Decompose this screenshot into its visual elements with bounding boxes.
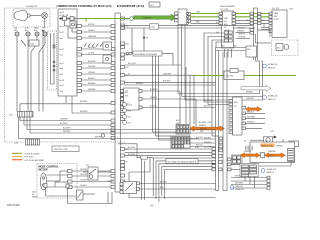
long option label box <box>166 159 198 164</box>
bottom-right row pins <box>267 176 270 189</box>
svg-text:WHT/BLU: WHT/BLU <box>80 111 88 113</box>
dashed harness boundary left <box>5 8 126 142</box>
svg-text:B7: B7 <box>126 162 128 164</box>
long rows to right bus <box>19 117 216 139</box>
heater dashed box <box>37 164 77 199</box>
svg-text:GRN/RED: GRN/RED <box>88 89 97 91</box>
svg-text:BLU/RED: BLU/RED <box>128 154 136 156</box>
svg-text:No.11: No.11 <box>60 85 64 87</box>
wire to coil <box>60 18 80 20</box>
svg-text:C6: C6 <box>224 27 226 29</box>
fuse box mini relay <box>70 21 76 28</box>
svg-text:BLK/WHT: BLK/WHT <box>163 81 171 83</box>
ECM bus left pin boxes <box>111 25 115 140</box>
fuse box header <box>57 5 112 8</box>
svg-text:YEL/RED: YEL/RED <box>80 169 88 171</box>
pin symbol P2 <box>66 184 69 204</box>
svg-text:GRN/BLK: GRN/BLK <box>244 151 252 153</box>
blue note 1 <box>263 63 279 69</box>
fan row labels <box>128 147 200 162</box>
connector box B <box>178 9 187 25</box>
svg-text:BLU/BLK: BLU/BLK <box>160 182 168 184</box>
ECM lower-left pins <box>111 170 115 189</box>
green wire VSS <box>194 75 296 77</box>
option label box <box>133 51 162 56</box>
svg-text:GRN/WHT: GRN/WHT <box>246 98 254 100</box>
orange arrow mirror right <box>265 153 286 158</box>
svg-text:BLU/WHT: BLU/WHT <box>63 128 71 130</box>
grid A labels <box>176 119 181 125</box>
svg-text:No.4: No.4 <box>60 55 64 57</box>
dimmer box <box>246 46 257 57</box>
svg-text:B22: B22 <box>126 44 129 46</box>
SCS dashed box <box>272 40 299 56</box>
lower feed verticals <box>142 159 145 201</box>
solenoid circle 4 <box>123 121 132 125</box>
gauge assembly box <box>222 11 234 48</box>
rows to note2 <box>178 92 263 101</box>
heater rows to ECM <box>72 169 111 187</box>
row labels mid <box>128 63 172 85</box>
svg-text:BLU/GRN: BLU/GRN <box>204 147 212 149</box>
noise condenser symbol <box>42 13 48 27</box>
service bus pins <box>250 12 261 34</box>
svg-text:NOT USED ON LX AND DX MODELS: NOT USED ON LX AND DX MODELS <box>168 160 197 163</box>
svg-text:PAGE 3-8: PAGE 3-8 <box>267 171 275 174</box>
svg-text:WHT/BLU: WHT/BLU <box>63 131 71 133</box>
solenoid circle 2 <box>123 109 132 113</box>
shift dashed box <box>48 31 57 90</box>
connector plug 1 <box>15 32 19 36</box>
svg-text:DLC (C4): DLC (C4) <box>272 8 280 10</box>
splice node S1 <box>130 17 134 21</box>
svg-text:A17: A17 <box>126 66 129 69</box>
svg-text:HOT AT ALL TIMES: HOT AT ALL TIMES <box>25 153 41 156</box>
AC relay pins <box>121 90 143 109</box>
distributor dashed box <box>13 9 50 27</box>
svg-text:REMOTE CTRL: REMOTE CTRL <box>261 145 273 147</box>
svg-text:JUNCTION CONN: JUNCTION CONN <box>54 149 69 151</box>
ECM/PCM main bus <box>115 13 121 192</box>
svg-text:No.8: No.8 <box>60 68 64 70</box>
solenoid circle 1 <box>123 103 133 107</box>
svg-text:BLK/YEL: BLK/YEL <box>150 106 157 108</box>
small relay K1 <box>103 42 112 50</box>
diode symbol <box>271 131 278 139</box>
svg-text:RED/BLK: RED/BLK <box>136 83 144 85</box>
svg-text:SIGNAL (20): SIGNAL (20) <box>268 63 278 66</box>
mirror arrow labels <box>244 151 277 153</box>
data link connector DLC <box>272 9 293 38</box>
mirror assembly outer box <box>250 142 295 163</box>
green pair wires to DLC <box>191 14 270 17</box>
multiplex right rows <box>246 112 266 129</box>
svg-text:15: 15 <box>246 20 248 22</box>
footer DSG <box>7 203 20 207</box>
left drops to grids <box>153 56 177 140</box>
fuse F1 <box>61 17 67 21</box>
svg-text:No.6: No.6 <box>60 91 64 93</box>
legend line hot-run <box>12 159 44 162</box>
top small box <box>149 2 160 7</box>
mirror pin mid <box>261 153 265 158</box>
wire color labels rows <box>88 24 97 91</box>
svg-text:BLU/RED: BLU/RED <box>150 89 158 91</box>
svg-text:No.23: No.23 <box>60 12 65 14</box>
power transistor <box>77 190 96 200</box>
svg-text:BLK/YEL: BLK/YEL <box>204 106 211 108</box>
svg-text:LT GRN: LT GRN <box>88 53 95 55</box>
SCS connector symbol <box>276 44 289 51</box>
blue note 2 <box>263 95 279 101</box>
svg-text:ACT: ACT <box>270 155 273 158</box>
svg-text:CONN: CONN <box>274 19 280 21</box>
bus pair below mpx <box>223 52 227 191</box>
svg-text:ILL: ILL <box>216 22 218 24</box>
mirror connector grid <box>240 164 259 177</box>
svg-text:GRN/ORN: GRN/ORN <box>163 73 172 75</box>
svg-text:C583: C583 <box>30 44 34 46</box>
svg-text:BRN/YEL: BRN/YEL <box>239 34 246 36</box>
relay wires <box>129 172 216 198</box>
svg-text:BLK/RED: BLK/RED <box>80 101 88 103</box>
bus label texts <box>204 138 212 149</box>
drops mid verticals <box>180 67 196 127</box>
splice label box C583 <box>29 40 39 46</box>
svg-text:B10: B10 <box>126 55 129 57</box>
distributor label <box>26 6 38 8</box>
svg-text:WHT: WHT <box>200 131 204 133</box>
svg-text:PAGE 23-4: PAGE 23-4 <box>236 188 244 191</box>
svg-text:C102: C102 <box>14 143 18 145</box>
bulkhead connector C102 <box>26 139 40 145</box>
multiplex control unit <box>233 97 243 135</box>
splice ring C <box>101 133 105 137</box>
svg-text:GAUGE: GAUGE <box>224 29 231 32</box>
connector plug 2 <box>26 32 30 36</box>
blue note 3 <box>261 168 277 174</box>
svg-text:PWR TR: PWR TR <box>107 181 114 183</box>
svg-text:GRN/RED: GRN/RED <box>268 151 277 153</box>
connector plug 4 <box>43 32 47 36</box>
ECM right pin boxes <box>121 17 125 183</box>
svg-text:C6: C6 <box>126 91 128 93</box>
svg-text:RED/BLK: RED/BLK <box>204 138 212 140</box>
AC relay box <box>124 88 140 110</box>
bottom right bus pins <box>212 148 222 171</box>
svg-text:No.9: No.9 <box>60 38 64 40</box>
ECM mid rows right <box>125 28 216 85</box>
fuse box internal wires <box>60 19 77 39</box>
fuse box internal labels <box>60 26 65 93</box>
svg-text:YEL/GRN: YEL/GRN <box>80 174 88 176</box>
svg-text:YEL/GRN: YEL/GRN <box>88 66 96 68</box>
legend line hot-acc <box>12 156 35 159</box>
svg-text:BLU/ORN: BLU/ORN <box>88 61 96 63</box>
svg-text:DASH): DASH) <box>32 196 38 199</box>
connector C101 <box>9 112 33 118</box>
svg-text:C12: C12 <box>126 104 129 106</box>
svg-text:7: 7 <box>246 14 247 16</box>
svg-text:GRN/WHT: GRN/WHT <box>60 119 68 121</box>
heater box label <box>39 166 60 172</box>
svg-text:C101: C101 <box>9 115 13 117</box>
junction diamond <box>143 36 149 40</box>
under-dash fuse box <box>58 9 77 96</box>
svg-text:DISTRIBUTOR: DISTRIBUTOR <box>26 6 38 8</box>
connector grid A <box>176 125 190 135</box>
svg-text:GRN/WHT: GRN/WHT <box>143 18 151 20</box>
svg-text:A25: A25 <box>126 148 129 151</box>
svg-text:BLU 1.5M: BLU 1.5M <box>128 63 136 65</box>
svg-text:GRN/BLU: GRN/BLU <box>204 142 212 144</box>
aux pin grid <box>232 155 243 164</box>
bottom-right rows <box>231 176 267 188</box>
multiplex left pins <box>229 100 233 134</box>
svg-text:PAGE 3-8: PAGE 3-8 <box>268 98 276 101</box>
wire node top <box>42 30 43 111</box>
svg-text:3-1: 3-1 <box>150 204 154 208</box>
svg-text:No.21: No.21 <box>60 49 65 51</box>
multiplex right pins <box>242 107 246 130</box>
gauge header <box>220 5 236 11</box>
fuse F2 <box>69 17 75 21</box>
svg-text:No.13: No.13 <box>60 26 65 28</box>
mirror heater motor box <box>250 137 273 144</box>
svg-text:A31: A31 <box>126 18 129 21</box>
svg-text:GRN/BLK: GRN/BLK <box>88 72 96 74</box>
svg-text:YEL/BLK: YEL/BLK <box>150 97 158 99</box>
svg-text:(C6 TYPE): (C6 TYPE) <box>220 9 229 11</box>
green highlight arrow IGNITION <box>134 14 178 21</box>
mirror assembly title <box>261 144 284 148</box>
feed row to note1 <box>256 57 263 100</box>
svg-text:C416: C416 <box>289 9 293 11</box>
svg-text:BRN/BLK: BRN/BLK <box>246 92 254 94</box>
svg-text:No.6: No.6 <box>150 5 154 7</box>
pair wire labels <box>150 12 201 29</box>
svg-text:WITH GAUGE OR WITH ABS: WITH GAUGE OR WITH ABS <box>135 53 158 56</box>
fuse box pin column <box>77 25 82 93</box>
blower relay <box>107 181 137 194</box>
connector grid B <box>171 136 190 148</box>
svg-text:YEL/WHT: YEL/WHT <box>80 180 88 182</box>
wire rows fuse box to ECM <box>82 26 112 91</box>
corner feed with label <box>118 144 153 159</box>
C102 label <box>14 143 18 145</box>
right mid text block <box>237 28 246 39</box>
svg-text:BLU/WHT: BLU/WHT <box>60 123 68 125</box>
gauge drop labels <box>221 46 238 48</box>
svg-text:NAVI (23): NAVI (23) <box>236 185 244 188</box>
mode motor oval <box>40 173 46 190</box>
svg-text:BRN/WHT: BRN/WHT <box>88 83 96 85</box>
svg-text:A12: A12 <box>126 25 129 28</box>
svg-text:MIRROR: MIRROR <box>276 145 284 147</box>
svg-text:B2: B2 <box>126 75 128 77</box>
DLC pins <box>269 12 272 32</box>
svg-text:WHT/RED: WHT/RED <box>88 47 97 49</box>
green wire K-line left <box>80 19 130 22</box>
ground label <box>32 192 38 199</box>
svg-text:CTL: CTL <box>234 106 237 108</box>
svg-text:GRN/YEL: GRN/YEL <box>247 122 254 124</box>
svg-text:PAGE 3-8: PAGE 3-8 <box>268 66 276 69</box>
svg-text:UNDER-DASH FUSE/RELAY BOX (C4): UNDER-DASH FUSE/RELAY BOX (C4) <box>57 5 112 8</box>
aux relay <box>83 165 111 180</box>
mirror grid stubs <box>245 177 255 189</box>
svg-text:15: 15 <box>262 20 264 22</box>
svg-text:No.18: No.18 <box>60 80 65 82</box>
mirror wires down <box>245 139 291 166</box>
black pair wires to DLC <box>121 20 269 28</box>
mirror drive striped element <box>288 149 295 162</box>
bottom fan rows <box>125 149 216 202</box>
blue note 4 <box>230 185 244 191</box>
svg-text:GRN/RED: GRN/RED <box>237 28 246 30</box>
svg-text:BLU/YEL: BLU/YEL <box>128 147 135 149</box>
svg-text:RED/BLK: RED/BLK <box>247 112 255 114</box>
svg-text:No.2: No.2 <box>60 74 64 76</box>
rows grid B to bus <box>190 137 216 147</box>
svg-text:ECM/PCM (C4): ECM/PCM (C4) <box>117 5 144 8</box>
svg-text:SIGNAL (20): SIGNAL (20) <box>267 168 277 171</box>
svg-text:RED/BLU: RED/BLU <box>88 78 96 80</box>
service check bus <box>254 8 258 60</box>
footer page no <box>150 204 154 208</box>
svg-text:No.17: No.17 <box>60 32 65 34</box>
svg-text:YEL/BLU: YEL/BLU <box>88 30 96 32</box>
VSS inline connector box <box>224 69 244 80</box>
svg-text:WHT/RED: WHT/RED <box>235 183 244 185</box>
white option arrow <box>241 85 271 91</box>
gauge box pin grid <box>225 31 233 42</box>
gauge box pins <box>219 12 236 24</box>
solenoid circle 3 <box>123 115 132 119</box>
svg-text:WHT/RED: WHT/RED <box>247 117 256 119</box>
svg-text:C416: C416 <box>151 27 155 29</box>
svg-text:BLU/RED + BLU: BLU/RED + BLU <box>199 122 212 124</box>
gauge drops <box>216 48 247 191</box>
small relay K2 <box>103 55 112 63</box>
heater pin column <box>68 170 73 189</box>
svg-text:GRN/ORN: GRN/ORN <box>88 36 97 38</box>
orange arrow mirror left <box>240 153 261 158</box>
inline connector label <box>150 24 159 29</box>
ECM header <box>117 5 144 8</box>
orange arrow MODE <box>190 122 225 131</box>
heater internal wires <box>47 171 68 187</box>
svg-text:BLK/YEL: BLK/YEL <box>88 24 95 26</box>
mini grid mirror <box>246 146 253 150</box>
pin symbol P1 <box>44 184 76 197</box>
ignition coil symbol <box>14 10 41 21</box>
blower relay pins <box>120 182 140 193</box>
wires from plugs down to C101 <box>17 36 45 111</box>
junction label box <box>52 146 79 152</box>
connector plug 3 <box>35 32 39 36</box>
drops from connector B <box>178 25 185 101</box>
svg-text:MOTOR: MOTOR <box>39 169 48 172</box>
bus pair pins <box>219 137 231 171</box>
splice circle S2 <box>126 52 132 55</box>
DLC header <box>272 8 280 10</box>
svg-text:No.15: No.15 <box>60 63 65 65</box>
mirror label small box <box>289 141 299 147</box>
pin number texts ECM right <box>126 18 129 164</box>
rows into mpx left <box>204 102 229 136</box>
svg-text:(SHIELD): (SHIELD) <box>199 125 207 127</box>
ECM bottom drops <box>68 192 113 204</box>
rows bus to mirror grid <box>231 160 240 170</box>
svg-text:DSG-P098: DSG-P098 <box>7 203 20 207</box>
pin number texts service bus <box>246 14 264 23</box>
wire bus drop to SCS <box>256 34 272 43</box>
rows C101 to ECM <box>20 117 111 125</box>
svg-text:HOT IN RUN AND START: HOT IN RUN AND START <box>25 159 45 162</box>
svg-text:GAUGE ASSEMBLY: GAUGE ASSEMBLY <box>220 5 236 8</box>
mid wire labels left of mpx <box>204 100 213 108</box>
svg-text:YEL/BLU: YEL/BLU <box>80 185 88 187</box>
svg-text:HOT IN ACC: HOT IN ACC <box>25 156 35 159</box>
legend line hot-all-times <box>12 153 40 156</box>
wires into DLC lower <box>258 23 270 30</box>
fuse box text block <box>60 12 69 17</box>
shift sensor loop <box>51 33 56 84</box>
wire node row circles <box>187 13 189 25</box>
orange arrow DIMMING <box>246 107 263 112</box>
gauge label texts <box>216 22 230 39</box>
connector box B pins <box>175 12 191 22</box>
right mid rows <box>236 30 271 39</box>
not-used slash row <box>84 44 107 47</box>
svg-text:7: 7 <box>262 14 263 16</box>
AC relay rows right <box>142 89 216 108</box>
connector row labels <box>14 27 46 33</box>
staircase feeds <box>204 33 228 136</box>
fuse box lower rows <box>20 96 111 113</box>
second comm bus line <box>121 24 253 26</box>
svg-text:SIGNAL (20): SIGNAL (20) <box>268 95 278 98</box>
